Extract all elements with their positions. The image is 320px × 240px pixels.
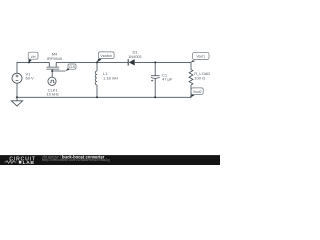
wire C1 top lead bbox=[154, 62, 156, 75]
wire top rail mid (MOSFET drain to diode) bbox=[56, 61, 128, 63]
node Vswitch junction dot bbox=[96, 61, 98, 63]
svg-text:IRF9540: IRF9540 bbox=[47, 56, 63, 61]
svg-text:1N4001: 1N4001 bbox=[128, 54, 143, 59]
footer CircuitLab logo bbox=[5, 157, 36, 167]
voltage source V1 bbox=[12, 71, 34, 83]
node Vswitch flag bbox=[97, 52, 114, 63]
resistor R_LOAD bbox=[189, 70, 210, 86]
node C1 bottom junction dot bbox=[154, 96, 156, 98]
node Vout1 flag (top right) bbox=[191, 52, 209, 62]
node C1 top junction dot bbox=[154, 61, 156, 63]
wire bottom rail bbox=[17, 83, 191, 97]
capacitor C1 bbox=[151, 72, 173, 81]
svg-text:Vin: Vin bbox=[31, 55, 36, 59]
wire CLK1 source top lead bbox=[51, 71, 53, 77]
diode D1 bbox=[128, 50, 143, 66]
voltage source CLK1 (square wave) bbox=[46, 77, 58, 96]
svg-text:Vout2: Vout2 bbox=[193, 90, 202, 94]
footer bar bbox=[0, 155, 220, 165]
svg-text:LAB: LAB bbox=[23, 160, 35, 165]
svg-text:CLK: CLK bbox=[69, 65, 76, 69]
node gate junction dot bbox=[51, 70, 53, 72]
ground bbox=[11, 97, 22, 106]
svg-text:47 µF: 47 µF bbox=[162, 77, 173, 82]
wire L1 bottom lead bbox=[96, 85, 98, 97]
svg-text:10 kHz: 10 kHz bbox=[46, 92, 58, 97]
transistor M4 (IRF9540 P-MOSFET) bbox=[46, 52, 63, 69]
wire top rail right (diode to R_LOAD corner) bbox=[135, 62, 191, 69]
svg-text:Vswitch: Vswitch bbox=[100, 54, 112, 58]
node CLK flag bbox=[66, 64, 77, 71]
svg-text:60 V: 60 V bbox=[26, 76, 35, 81]
wire L1 leads bbox=[96, 62, 98, 71]
svg-text:Vout1: Vout1 bbox=[196, 55, 205, 59]
node Vin flag bbox=[28, 52, 38, 62]
svg-text:1.18 mH: 1.18 mH bbox=[103, 75, 118, 80]
wire top rail left (V1 to MOSFET source) bbox=[17, 62, 49, 73]
node Vout2 flag (bottom right) bbox=[190, 88, 204, 98]
svg-text:http://circuitlab.com/c/688mm5: http://circuitlab.com/c/688mm5495a2g bbox=[42, 157, 110, 162]
wire MOSFET gate net to CLK flag and CLK1 source bbox=[52, 69, 65, 71]
inductor L1 bbox=[95, 71, 118, 85]
node L1 bottom junction dot bbox=[96, 96, 98, 98]
wire C1 bottom lead bbox=[154, 79, 156, 98]
node GND junction dot (V1 bottom) bbox=[16, 96, 18, 98]
svg-text:100 Ω: 100 Ω bbox=[194, 75, 205, 80]
node Vin junction dot bbox=[28, 61, 30, 63]
